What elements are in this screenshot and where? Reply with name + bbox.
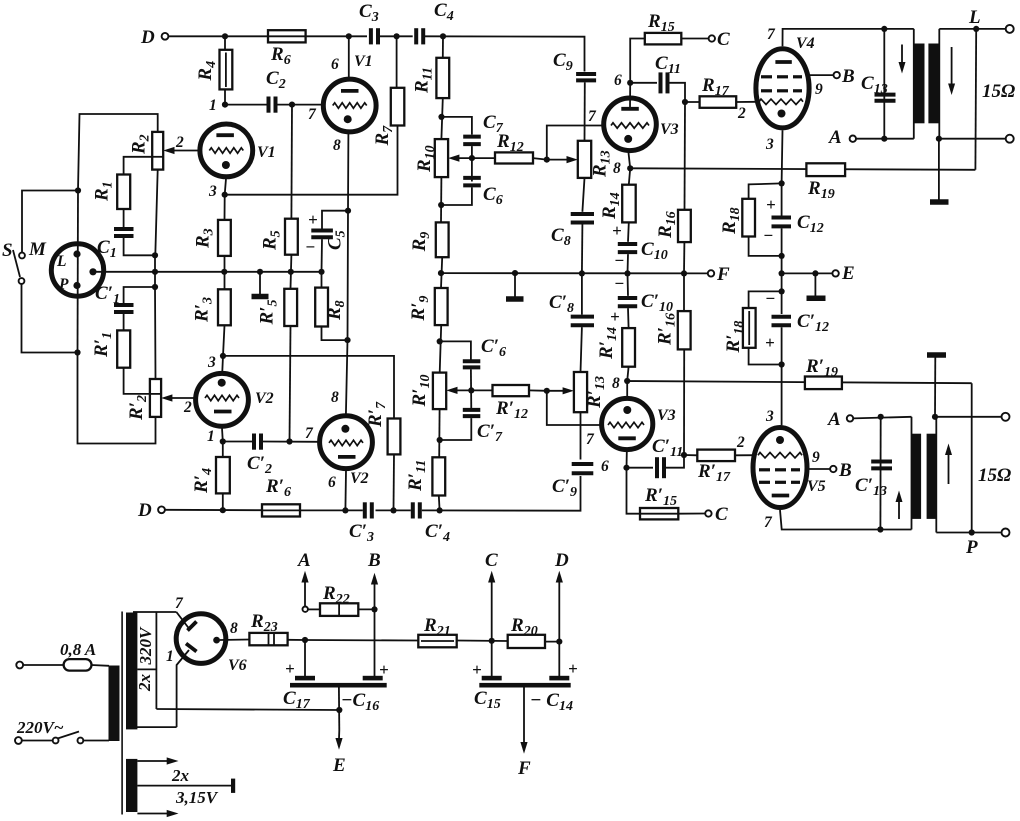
capacitor C'13 (871, 462, 892, 469)
resistor R'6 (262, 504, 300, 516)
wire V1a cathode down (225, 179, 227, 220)
wire secondary bottom lower (936, 532, 1002, 534)
wire feedback lower corner (971, 383, 973, 532)
svg-text:6: 6 (331, 56, 339, 73)
transformer core line (121, 612, 123, 815)
arrow R'2 wiper (161, 394, 172, 401)
capacitor C'3 (365, 502, 372, 518)
resistor R12 (495, 152, 533, 163)
resistor R'1 (117, 330, 130, 367)
node dot R18 top (779, 180, 785, 186)
wire F bus (441, 272, 708, 274)
wire C'6 to C'7 (470, 369, 472, 411)
wire C2 to V1b grid (278, 104, 322, 106)
node dot V1b pin6 top (346, 33, 352, 39)
wire A upper line (856, 138, 914, 140)
wire R'3 bottom to V2a (222, 325, 224, 371)
capacitor C10 (618, 244, 637, 252)
transformer output upper (914, 29, 940, 139)
node dot C5 branch (345, 208, 351, 214)
capacitor C'8 (571, 317, 594, 326)
node dot C10 F-bus (624, 270, 630, 276)
wire A arrow line (304, 640, 306, 676)
node dot A junction (302, 637, 308, 643)
resistor R17 (700, 96, 737, 108)
wire R11 bottom (441, 98, 442, 139)
svg-text:15Ω: 15Ω (978, 465, 1011, 486)
wire R'10 wiper line (455, 389, 493, 391)
wire C12 to E line (781, 228, 783, 273)
node dot R17 junction (682, 99, 688, 105)
capacitor C11 (661, 72, 668, 93)
wire R2 loop top (78, 114, 158, 191)
capacitor C'11 (657, 457, 664, 478)
wire R'4 top (222, 442, 224, 458)
wire V2a grid to R'2 wiper (167, 397, 194, 399)
svg-text:2x: 2x (135, 674, 154, 693)
node dot feedback upper (973, 26, 979, 32)
wire HT tap to E node (156, 709, 339, 710)
node dot R4 top (222, 33, 228, 39)
triode V3a (604, 98, 657, 151)
svg-text:−: − (763, 226, 773, 245)
wire C10 bottom (627, 254, 630, 273)
capacitor C'10 (618, 298, 637, 306)
wire R'18 bottom loop (749, 348, 782, 365)
svg-text:1: 1 (166, 648, 174, 665)
wire V2b anode down (344, 470, 347, 510)
node dot R5 bus (288, 269, 294, 275)
wire R4 bottom to node1 (224, 89, 226, 104)
wire C'12 top (781, 273, 783, 314)
wire C'11 to R'17 node (666, 455, 684, 468)
resistor R6 (268, 30, 306, 42)
svg-text:−: − (614, 251, 624, 270)
wire R14 to C10 (627, 222, 630, 241)
terminal B upper (834, 72, 840, 78)
terminal A upper (850, 136, 856, 142)
wire C'8 top (581, 273, 583, 314)
wire V6 pin1 (177, 650, 189, 727)
node dot C5 bus (318, 269, 324, 275)
wire R4 top (224, 36, 226, 50)
resistor R9 (436, 222, 449, 257)
svg-text:6: 6 (601, 458, 609, 475)
capacitor C15C14 common plate (479, 683, 570, 688)
resistor R'19 (805, 377, 842, 390)
wire C'7 bottom branch (440, 418, 472, 440)
wire R7 bottom loop to V1a cathode (225, 126, 398, 195)
resistor R16 (678, 210, 691, 242)
node dot feedback lower (969, 529, 975, 535)
resistor R14 (622, 185, 636, 223)
svg-text:3: 3 (207, 354, 216, 371)
wire R16 bottom (683, 242, 685, 273)
wire C line (491, 581, 493, 676)
resistor R15 (645, 33, 682, 45)
vertical line x155 (154, 255, 156, 287)
node dot B junction (371, 606, 377, 612)
wire switch upper to rail (22, 191, 76, 253)
wire C5 top branch (322, 211, 348, 229)
svg-text:C: C (715, 504, 728, 525)
node dot C13 bottom (881, 136, 887, 142)
terminal mains upper (16, 662, 23, 669)
filament tap bar (231, 779, 235, 793)
svg-text:220V~: 220V~ (16, 718, 64, 737)
resistor R'7 (388, 419, 401, 455)
wire R'16 bottom to R'17 node (683, 349, 685, 455)
node dot C6 branch (438, 202, 444, 208)
resistor R4 (220, 50, 233, 90)
svg-text:V3: V3 (657, 407, 676, 424)
beam tetrode V5 (753, 428, 807, 508)
triode V1b (323, 79, 376, 132)
wire R17 wires (685, 101, 757, 103)
wire cathode line V2a to R'7 loop (223, 356, 394, 419)
wire R18 bottom loop (749, 237, 782, 256)
arrow C (488, 571, 495, 583)
wire V3a anode up (629, 83, 631, 109)
node dot V1a pin3 (222, 192, 228, 198)
arrow winding upper-right (948, 47, 955, 95)
wire R13 bottom to C8 (582, 178, 584, 212)
wire A lower line (853, 417, 911, 419)
node dot V3a pin8 (627, 165, 633, 171)
potentiometer R10 (435, 139, 448, 177)
wire R'7 bottom (393, 454, 396, 510)
arrow R'10 wiper (446, 387, 457, 394)
svg-text:A: A (828, 127, 842, 148)
svg-text:7: 7 (764, 514, 773, 531)
wire C9 to R13 (584, 82, 586, 140)
node dot E junction (779, 270, 785, 276)
svg-text:−: − (614, 274, 624, 293)
arrow A (301, 571, 308, 612)
node dot C'6 branch (437, 338, 443, 344)
node dot C13 top (881, 26, 887, 32)
resistor R'5 (284, 289, 297, 326)
node dot R'11 bottom (437, 507, 443, 513)
resistor R5 (285, 219, 298, 255)
capacitor C13 (875, 95, 896, 101)
capacitor C'9 (572, 464, 594, 473)
svg-text:3: 3 (765, 136, 774, 153)
wire mains upper (23, 664, 109, 667)
ground lower transformer (927, 355, 946, 417)
wire R15 to C terminal (681, 38, 709, 40)
wire C'12 to V5 pin3 (781, 327, 783, 425)
wire filament tap (137, 785, 231, 787)
resistor R'11 (432, 457, 445, 495)
node dot V2b pin6 (342, 507, 348, 513)
svg-text:+: + (285, 659, 295, 678)
capacitor C1 (114, 229, 134, 236)
node dot R'4 bottom (220, 507, 226, 513)
wire R'5 bottom to C'2 node (290, 326, 291, 442)
node dot V3b pin6 (623, 465, 629, 471)
svg-text:P: P (59, 276, 69, 293)
wire R'18 top loop (749, 291, 782, 308)
wire E stem (338, 688, 340, 731)
wire R'2 loop bottom (78, 353, 156, 444)
resistor R3 (218, 220, 231, 256)
node dot C'2 right (286, 438, 292, 444)
node dot grid V1a (222, 102, 228, 108)
switch S (13, 250, 25, 284)
svg-text:3: 3 (208, 183, 217, 200)
triode V1a (200, 124, 253, 177)
capacitor C17C16 common plate (290, 683, 387, 688)
wire C'6 branch (440, 341, 471, 359)
svg-text:A: A (297, 550, 311, 571)
wire R'11 bottom (438, 496, 441, 511)
wire R18 top loop (749, 183, 782, 198)
resistor R21 (418, 635, 456, 648)
potentiometer R13 (578, 141, 591, 178)
wire R'15 feed (627, 468, 641, 514)
node dot ground bus (257, 269, 263, 275)
terminal C upper (709, 35, 715, 41)
wire C'8 bottom to R'13 (581, 327, 582, 372)
wire C7 branch (442, 117, 472, 135)
terminal output lower bottom (1002, 529, 1010, 537)
svg-text:D: D (137, 500, 152, 521)
resistor R'4 (216, 457, 230, 493)
transformer filament winding (126, 759, 137, 812)
svg-text:M: M (28, 239, 47, 260)
svg-text:+: + (610, 307, 620, 326)
wire R12 right to R13 wiper (533, 126, 602, 160)
svg-text:B: B (838, 460, 852, 481)
svg-text:2: 2 (183, 399, 192, 416)
wire C'1 to vertical155 (124, 287, 155, 303)
ground upper transformer (930, 139, 949, 202)
terminal output upper top (1006, 25, 1014, 33)
wire V4 cathode down (781, 130, 784, 216)
transformer mains primary (109, 666, 120, 742)
wire C8 bottom (581, 225, 584, 274)
svg-text:C: C (717, 29, 730, 50)
wire main ground bus left (97, 271, 322, 273)
svg-text:F: F (716, 264, 730, 285)
svg-text:1: 1 (207, 428, 215, 445)
wire R'4 bottom (222, 493, 224, 510)
wire R'1 to R'2 (124, 368, 150, 394)
wire D line (558, 581, 560, 676)
svg-text:V3: V3 (660, 121, 679, 138)
arrow R2 wiper (163, 147, 174, 154)
terminal A lower (847, 415, 853, 421)
svg-text:S: S (2, 240, 13, 261)
arrow filament bottom (137, 810, 178, 817)
capacitor C8 (571, 214, 594, 223)
node dot R'18 top (779, 288, 785, 294)
wire XLR pin column (77, 191, 80, 353)
capacitor C'4 (413, 502, 420, 518)
arrow F (520, 742, 527, 754)
capacitor C'2 (254, 434, 261, 450)
svg-text:7: 7 (588, 108, 597, 125)
svg-text:+: + (765, 333, 775, 352)
wire R22 right to B (358, 608, 374, 610)
svg-text:C: C (485, 550, 498, 571)
wire feedback upper corner (974, 29, 977, 170)
terminal B lower (830, 466, 836, 472)
wire C'10 top (627, 273, 630, 296)
wire V6 cathode to R23 (220, 639, 250, 642)
wire R7 top (396, 36, 398, 88)
terminal R22 left (303, 607, 308, 612)
ground E (807, 273, 826, 298)
node dot R13 wiper (544, 157, 550, 163)
wire R'17 wires (684, 454, 756, 456)
terminal mains lower (15, 737, 22, 744)
node dot C junction (489, 638, 495, 644)
resistor R'12 (493, 385, 530, 396)
node dot E ground (812, 270, 818, 276)
wire R1 to C1 (123, 209, 125, 227)
wire secondary bottom upper (939, 138, 1006, 140)
rectifier V6 (176, 614, 226, 664)
svg-text:V2: V2 (255, 390, 274, 407)
arrow R10 wiper (448, 155, 459, 162)
wire switch lower to rail (22, 284, 75, 353)
resistor R7 (391, 88, 405, 126)
resistor R'18 (743, 308, 756, 348)
wire R5 bottom (290, 255, 293, 289)
node dot V2a pin1 (220, 438, 226, 444)
capacitor C'12 (772, 317, 792, 326)
arrow D (556, 571, 563, 583)
arrow E (335, 730, 342, 750)
switch mains (22, 732, 109, 744)
svg-text:+: + (472, 660, 482, 679)
svg-text:320V: 320V (136, 626, 155, 666)
node dot R8 branch (344, 337, 350, 343)
resistor R22 (320, 603, 358, 616)
svg-text:+: + (766, 195, 776, 214)
wire V1a grid to R2 wiper (170, 150, 198, 152)
resistor R'3 (218, 289, 231, 325)
svg-text:+: + (612, 221, 622, 240)
svg-text:A: A (827, 409, 841, 430)
capacitor C'7 (463, 410, 481, 416)
svg-text:+: + (308, 210, 318, 229)
arrow filament top (137, 757, 178, 764)
wire C13 column (883, 29, 885, 139)
svg-text:V4: V4 (796, 35, 815, 52)
svg-text:E: E (332, 755, 346, 776)
capacitor C'1 (114, 305, 134, 312)
node dot C12 bottom (779, 253, 785, 259)
svg-text:P: P (965, 537, 978, 558)
node dot x155 lower (152, 284, 158, 290)
wire R11 top (442, 36, 444, 58)
svg-text:8: 8 (333, 137, 341, 154)
svg-text:9: 9 (815, 81, 823, 98)
wire R9 bottom (441, 257, 442, 288)
node dot R11 top (440, 33, 446, 39)
svg-text:8: 8 (613, 160, 621, 177)
arrow B (371, 573, 378, 585)
arrow winding lower-right (945, 444, 952, 485)
wire C'2 to V2b grid (263, 441, 318, 443)
wire C5 bottom to bus (321, 239, 324, 272)
arrow winding upper-left (899, 45, 906, 74)
node dot wiper C7C6 (469, 155, 475, 161)
node dot ground stem upper (936, 136, 942, 142)
node dot R16 F-bus (681, 270, 687, 276)
capacitor C12 (772, 218, 792, 227)
resistor R'17 (697, 450, 735, 462)
svg-text:9: 9 (812, 449, 820, 466)
svg-text:2: 2 (175, 134, 184, 151)
svg-text:D: D (140, 27, 155, 48)
svg-text:V1: V1 (354, 53, 373, 70)
node dot C2 right (289, 102, 295, 108)
svg-text:V1: V1 (257, 144, 276, 161)
triode V2b (320, 416, 373, 469)
wire C11 to R17 node (670, 83, 686, 102)
wire R'9 bottom (440, 325, 442, 373)
wire top rail D (168, 36, 584, 71)
wire V4 anode to primary top (783, 29, 914, 46)
wire C'1 to R'1 (123, 314, 125, 331)
potentiometer R'10 (433, 373, 446, 410)
wire R'15 to C terminal (678, 513, 705, 515)
wire R10 bottom (440, 177, 442, 222)
wire V3b anode down (626, 452, 628, 468)
triode V3b (602, 398, 653, 449)
wire R8 bottom branch (322, 327, 348, 341)
wire V2a anode down (221, 428, 224, 442)
wire C1 to vertical155 (124, 238, 155, 255)
svg-text:2: 2 (736, 434, 745, 451)
node dot x155 on bus (152, 269, 158, 275)
capacitor C6 (463, 178, 481, 186)
svg-text:V6: V6 (228, 657, 247, 674)
triode V2a (196, 373, 249, 426)
wire secondary top lower (936, 416, 1002, 418)
potentiometer R2 (152, 132, 163, 170)
svg-text:F: F (517, 758, 531, 779)
wire R1 to R2 (124, 157, 153, 175)
svg-text:7: 7 (586, 431, 595, 448)
wire V1b cathode column (346, 133, 349, 415)
resistor R8 (315, 288, 328, 327)
wire C'10 to R'14 (627, 308, 630, 328)
svg-text:7: 7 (767, 26, 776, 43)
capacitor C17 plate (295, 676, 315, 681)
wire R'19 line (627, 381, 972, 396)
node dot E tap (336, 707, 342, 713)
wire R8 top (321, 272, 323, 288)
capacitor C7 (463, 137, 481, 145)
node dot R'7 bottom (390, 507, 396, 513)
svg-text:6: 6 (614, 72, 622, 89)
svg-text:1: 1 (209, 97, 217, 114)
svg-text:8: 8 (230, 620, 238, 637)
ground bus left (252, 272, 269, 297)
svg-text:7: 7 (308, 106, 317, 123)
capacitor C9 (576, 74, 596, 80)
wire node1 to C2 (225, 104, 267, 106)
svg-text:2x: 2x (171, 766, 190, 785)
svg-text:3: 3 (765, 408, 774, 425)
wire C2node to R5 (290, 105, 293, 219)
wire C6 bottom branch (441, 187, 472, 205)
